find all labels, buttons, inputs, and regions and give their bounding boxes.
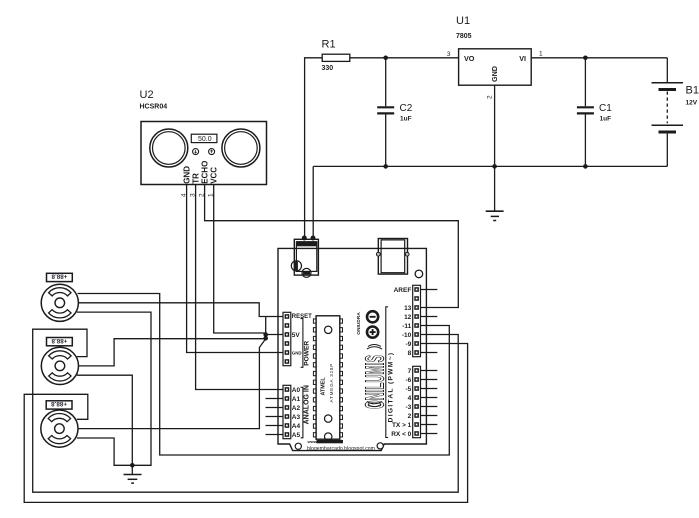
U2 increment button <box>209 149 215 155</box>
svg-text:+88.8: +88.8 <box>51 273 67 280</box>
junction C1 top <box>583 56 588 61</box>
svg-text:-9: -9 <box>406 341 412 348</box>
svg-text:A0: A0 <box>292 387 301 394</box>
wire 5V stub <box>266 334 284 336</box>
servo motor M3 (bottom) <box>41 410 78 447</box>
svg-text:A4: A4 <box>292 423 301 430</box>
svg-text:C2: C2 <box>400 103 413 114</box>
stub pin A4 <box>266 425 284 427</box>
chip hole top <box>325 326 332 333</box>
SIMULINO end flourish bottom <box>367 402 382 404</box>
stub pin A3 <box>266 416 284 418</box>
junction C2 top <box>383 56 388 61</box>
stub 8 <box>420 352 437 354</box>
svg-text:RX < 0: RX < 0 <box>391 431 411 438</box>
stub 12 <box>420 316 437 318</box>
stub AREF <box>420 289 437 291</box>
ATMEL chip U3 body <box>316 316 340 439</box>
stub pin 5 <box>420 388 437 390</box>
wire M3 signal to Arduino pin 9 <box>24 344 467 503</box>
junction 5V node <box>263 332 268 337</box>
Arduino board ARD1 outline <box>278 248 426 450</box>
svg-text:3: 3 <box>447 51 451 58</box>
mounting hole top-right <box>415 270 423 278</box>
svg-text:-5: -5 <box>406 386 412 393</box>
svg-text:R1: R1 <box>322 39 336 51</box>
U2 left transducer <box>150 129 188 167</box>
junction C1 bottom <box>583 164 588 169</box>
mounting hole bottom-right <box>377 443 383 449</box>
svg-text:2: 2 <box>487 95 494 99</box>
U2 decrement button <box>193 149 199 155</box>
angle display of M2 (middle) (+88.8) <box>47 337 73 346</box>
SIMULINO end flourish top <box>367 347 382 349</box>
wire M1 + to RESET/5V node <box>78 303 283 317</box>
svg-text:1uF: 1uF <box>600 116 612 123</box>
wire RESET node down to 5V junction <box>265 317 267 339</box>
svg-text:2: 2 <box>408 413 412 420</box>
capacitor C1 <box>584 58 586 106</box>
ground (below U1) <box>494 166 496 211</box>
svg-text:12V: 12V <box>686 100 698 107</box>
svg-text:12: 12 <box>404 314 412 321</box>
svg-text:+88.8: +88.8 <box>51 337 67 344</box>
svg-text:50.0: 50.0 <box>198 136 212 143</box>
DIGITAL bracket <box>386 307 388 438</box>
stub pin 7 <box>420 370 437 372</box>
chip notch bottom <box>325 433 332 440</box>
svg-text:A2: A2 <box>292 405 301 412</box>
svg-text:13: 13 <box>404 305 412 312</box>
stub pin 2 <box>420 415 437 417</box>
stub pin A5 <box>266 434 284 436</box>
wire U1 pin1 to battery (node VIN) <box>531 57 667 59</box>
svg-text:8: 8 <box>408 350 412 357</box>
POWER header <box>283 312 291 365</box>
svg-text:1: 1 <box>539 51 543 58</box>
capacitor C2 <box>385 58 387 106</box>
svg-text:+88.8: +88.8 <box>51 400 67 407</box>
svg-text:TR: TR <box>191 173 200 184</box>
junction power jack pin 2 <box>311 236 316 241</box>
svg-text:-10: -10 <box>402 332 412 339</box>
svg-text:TX > 1: TX > 1 <box>392 422 412 429</box>
U2 right transducer <box>222 129 260 167</box>
stub pin 1 <box>420 424 437 426</box>
svg-text:ATMEL: ATMEL <box>321 377 327 396</box>
svg-text:HCSR04: HCSR04 <box>140 104 168 111</box>
svg-text:U2: U2 <box>140 89 154 101</box>
wire R1 left lead + vertical down to power jack <box>305 58 323 238</box>
regulator U1 7805 body <box>459 49 532 85</box>
wire sensor GND to POWER header GND pin <box>187 185 284 353</box>
servo motor M2 (middle) <box>41 347 78 384</box>
wire M3 - to ground node <box>77 438 131 465</box>
wire VCC to 5V node <box>214 185 266 335</box>
resistor R1 <box>322 54 350 61</box>
svg-text:-6: -6 <box>406 377 412 384</box>
svg-text:ONILUMIS: ONILUMIS <box>359 355 389 409</box>
POWER bracket <box>301 319 303 368</box>
servo motor M1 (top) <box>41 284 78 321</box>
ANALOG IN header <box>283 385 291 438</box>
wire M1 - to ground node <box>77 312 151 465</box>
svg-text:-3: -3 <box>406 404 412 411</box>
mounting hole bottom-left <box>295 443 301 449</box>
power LED (minus) <box>367 311 378 322</box>
svg-text:A1: A1 <box>292 396 301 403</box>
wire M3 + diagonal to 5V junction <box>78 339 266 429</box>
power LED (plus) <box>367 327 378 338</box>
svg-text:A3: A3 <box>292 414 301 421</box>
junction C2 bottom <box>383 164 388 169</box>
wire U1 pin2 GND vertical <box>494 85 496 166</box>
stub pin A2 <box>266 407 284 409</box>
svg-text:VCC: VCC <box>209 167 218 184</box>
stub pin A1 <box>266 398 284 400</box>
junction motor ground node <box>130 463 135 468</box>
junction U1 pin2 / ground <box>492 164 497 169</box>
svg-text:-11: -11 <box>402 323 411 330</box>
DIGITAL header lower (7..0) <box>413 366 421 437</box>
stub pin 3 <box>420 406 437 408</box>
svg-text:GND: GND <box>490 66 499 82</box>
wire ground rail left drop to power jack <box>312 166 314 238</box>
ground (motors) <box>131 465 133 474</box>
stub pin 6 <box>420 379 437 381</box>
angle display of M1 (top) (+88.8) <box>47 273 73 282</box>
chip hole bottom <box>325 415 332 422</box>
svg-text:ONIUDRA: ONIUDRA <box>356 312 362 335</box>
svg-text:7805: 7805 <box>456 33 472 40</box>
svg-text:5V: 5V <box>292 332 301 339</box>
wire M2 signal to Arduino pin 10 <box>33 329 459 492</box>
wire M1 signal to Arduino pin 11 <box>78 294 450 456</box>
junction power jack pin 1 <box>302 236 307 241</box>
svg-text:AREF: AREF <box>394 287 412 294</box>
svg-text:ECHO: ECHO <box>200 161 209 184</box>
DIGITAL header upper (AREF..8) <box>413 285 421 356</box>
ANALOG IN bracket <box>301 387 303 438</box>
svg-text:ANALOG IN: ANALOG IN <box>304 385 311 424</box>
stub pin 4 <box>420 397 437 399</box>
battery B1 <box>666 58 668 82</box>
wire M2 - to ground node <box>77 375 133 463</box>
svg-text:POWER: POWER <box>304 341 311 366</box>
svg-text:A5: A5 <box>292 432 301 439</box>
svg-text:7: 7 <box>408 368 412 375</box>
svg-text:blogembarcado.blogspot.com: blogembarcado.blogspot.com <box>307 446 376 452</box>
svg-text:330: 330 <box>322 65 334 72</box>
stub pin 0 <box>420 433 437 435</box>
angle display of M3 (bottom) (+88.8) <box>46 400 72 409</box>
svg-text:4: 4 <box>408 395 412 402</box>
svg-text:B1: B1 <box>686 85 699 97</box>
U2 distance display 50.0 <box>191 134 217 142</box>
svg-text:VI: VI <box>519 54 526 63</box>
svg-text:GND: GND <box>182 166 191 184</box>
svg-text:U1: U1 <box>456 15 470 27</box>
Arduino USB connector <box>378 239 407 275</box>
svg-text:VO: VO <box>464 54 475 63</box>
Arduino power jack <box>294 239 318 275</box>
wire ECHO to Arduino pin 13 <box>205 185 459 308</box>
svg-text:ATMEGA 328P: ATMEGA 328P <box>329 363 334 403</box>
wire TR to Arduino pin A0 <box>196 185 284 390</box>
svg-text:1uF: 1uF <box>400 116 412 123</box>
wire R1 right to U1 pin 3 (node VREG-OUT) <box>350 57 459 59</box>
sensor U2 HCSR04 body <box>141 122 267 185</box>
wire ground rail (node GND) <box>313 165 667 167</box>
svg-text:GND: GND <box>292 351 302 356</box>
svg-text:www.: www. <box>307 439 318 444</box>
svg-text:C1: C1 <box>599 103 612 114</box>
wire M2 + to 5V junction <box>78 339 266 366</box>
